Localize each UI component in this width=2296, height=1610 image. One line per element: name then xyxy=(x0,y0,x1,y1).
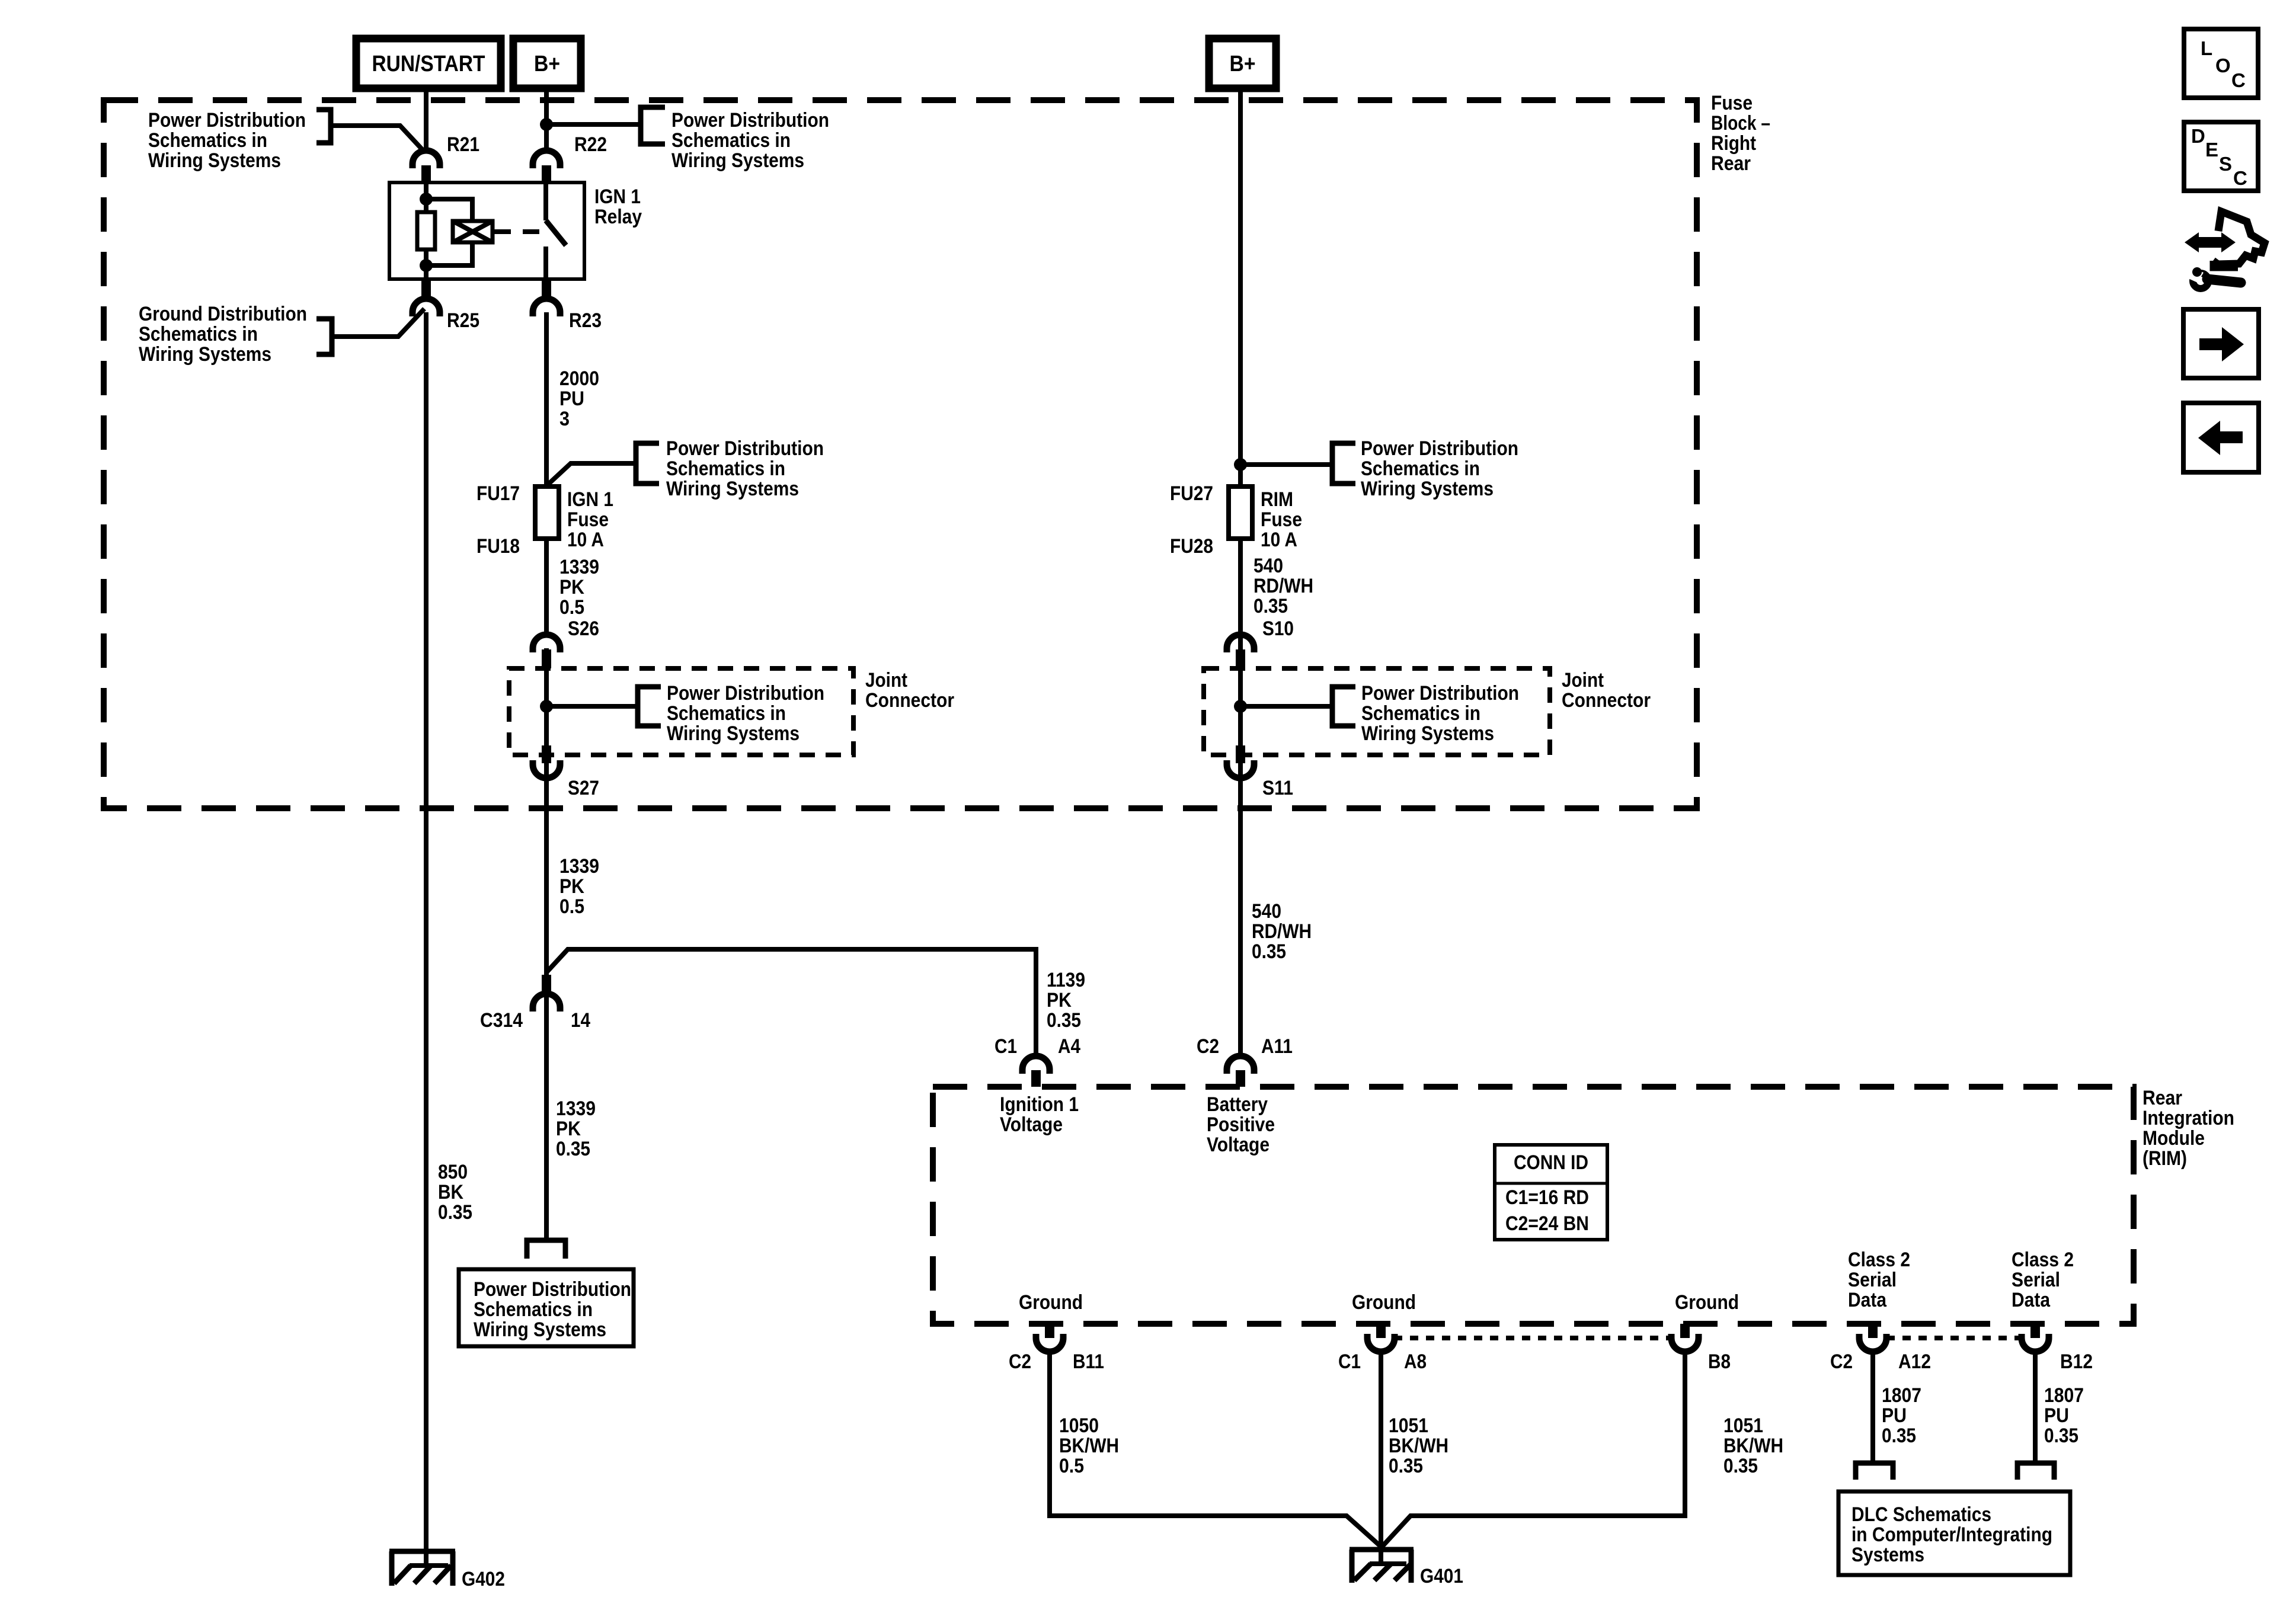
svg-text:A4: A4 xyxy=(1058,1035,1080,1058)
svg-text:Wiring Systems: Wiring Systems xyxy=(139,343,271,366)
svg-text:Power Distribution: Power Distribution xyxy=(667,682,824,705)
svg-text:Positive: Positive xyxy=(1207,1113,1275,1136)
svg-text:A12: A12 xyxy=(1898,1350,1931,1373)
svg-text:BK: BK xyxy=(438,1181,463,1204)
svg-text:Ground Distribution: Ground Distribution xyxy=(139,303,307,325)
svg-text:Power Distribution: Power Distribution xyxy=(148,109,306,132)
svg-text:S11: S11 xyxy=(1262,777,1293,799)
svg-text:BK/WH: BK/WH xyxy=(1059,1435,1119,1457)
svg-text:BK/WH: BK/WH xyxy=(1723,1435,1783,1457)
svg-text:L: L xyxy=(2201,37,2212,59)
svg-text:RIM: RIM xyxy=(1261,488,1293,511)
svg-text:10 A: 10 A xyxy=(1261,529,1297,551)
svg-text:0.5: 0.5 xyxy=(559,596,584,619)
svg-text:G401: G401 xyxy=(1420,1565,1463,1587)
svg-text:Schematics in: Schematics in xyxy=(148,129,267,152)
svg-text:Schematics in: Schematics in xyxy=(139,323,258,345)
svg-text:1339: 1339 xyxy=(556,1097,596,1120)
svg-text:Data: Data xyxy=(1848,1289,1887,1311)
svg-text:Power Distribution: Power Distribution xyxy=(474,1278,631,1301)
svg-text:PU: PU xyxy=(1882,1404,1907,1427)
svg-text:B12: B12 xyxy=(2060,1350,2093,1373)
svg-text:D: D xyxy=(2191,125,2205,147)
svg-text:FU18: FU18 xyxy=(477,535,520,558)
svg-text:C2=24 BN: C2=24 BN xyxy=(1505,1212,1589,1235)
svg-text:1050: 1050 xyxy=(1059,1414,1099,1437)
svg-text:Wiring Systems: Wiring Systems xyxy=(1361,478,1494,500)
svg-text:IGN 1: IGN 1 xyxy=(594,185,641,208)
svg-text:Wiring Systems: Wiring Systems xyxy=(671,149,804,172)
svg-text:0.35: 0.35 xyxy=(1723,1455,1758,1477)
svg-text:Fuse: Fuse xyxy=(567,508,609,531)
svg-text:Schematics in: Schematics in xyxy=(666,457,785,480)
svg-text:A8: A8 xyxy=(1404,1350,1427,1373)
svg-text:B8: B8 xyxy=(1708,1350,1731,1373)
svg-text:B+: B+ xyxy=(1230,52,1256,76)
svg-text:540: 540 xyxy=(1253,555,1283,577)
svg-text:C314: C314 xyxy=(480,1009,523,1032)
svg-text:C2: C2 xyxy=(1830,1350,1853,1373)
svg-text:0.5: 0.5 xyxy=(1059,1455,1084,1477)
svg-text:0.35: 0.35 xyxy=(1047,1009,1081,1032)
svg-text:R22: R22 xyxy=(574,133,607,156)
svg-text:Fuse: Fuse xyxy=(1261,508,1302,531)
svg-text:FU28: FU28 xyxy=(1170,535,1213,558)
svg-text:in Computer/Integrating: in Computer/Integrating xyxy=(1851,1523,2052,1546)
svg-text:A11: A11 xyxy=(1261,1035,1293,1058)
svg-text:0.35: 0.35 xyxy=(556,1138,590,1160)
svg-text:PU: PU xyxy=(559,388,584,410)
svg-text:Right: Right xyxy=(1711,132,1756,155)
svg-text:RD/WH: RD/WH xyxy=(1253,575,1313,597)
svg-text:RD/WH: RD/WH xyxy=(1252,920,1312,943)
svg-text:Wiring Systems: Wiring Systems xyxy=(148,149,281,172)
svg-text:Power Distribution: Power Distribution xyxy=(1361,437,1518,460)
svg-text:Wiring Systems: Wiring Systems xyxy=(667,722,800,745)
svg-text:PK: PK xyxy=(559,875,584,898)
svg-text:Power Distribution: Power Distribution xyxy=(671,109,829,132)
svg-text:IGN 1: IGN 1 xyxy=(567,488,613,511)
svg-text:0.35: 0.35 xyxy=(1389,1455,1423,1477)
svg-text:FU27: FU27 xyxy=(1170,482,1213,505)
svg-text:Schematics in: Schematics in xyxy=(1361,702,1480,725)
svg-text:(RIM): (RIM) xyxy=(2142,1147,2187,1170)
svg-text:3: 3 xyxy=(559,408,570,430)
svg-text:1807: 1807 xyxy=(1882,1384,1921,1407)
svg-text:B+: B+ xyxy=(534,52,560,76)
svg-text:Class 2: Class 2 xyxy=(2012,1249,2074,1271)
svg-text:PK: PK xyxy=(1047,989,1072,1012)
svg-text:1807: 1807 xyxy=(2044,1384,2084,1407)
svg-text:Wiring Systems: Wiring Systems xyxy=(666,478,799,500)
svg-text:S: S xyxy=(2219,153,2232,175)
svg-text:1339: 1339 xyxy=(559,556,599,578)
svg-text:Schematics in: Schematics in xyxy=(474,1298,593,1321)
svg-text:Class 2: Class 2 xyxy=(1848,1249,1910,1271)
svg-text:Data: Data xyxy=(2012,1289,2051,1311)
svg-text:E: E xyxy=(2205,139,2218,161)
svg-text:Wiring Systems: Wiring Systems xyxy=(1361,722,1494,745)
svg-text:O: O xyxy=(2215,55,2231,76)
svg-text:0.35: 0.35 xyxy=(1882,1425,1916,1447)
svg-text:R25: R25 xyxy=(447,309,479,332)
svg-text:2000: 2000 xyxy=(559,367,599,390)
svg-text:Schematics in: Schematics in xyxy=(671,129,791,152)
svg-text:RUN/START: RUN/START xyxy=(372,52,485,76)
svg-text:S27: S27 xyxy=(568,777,599,799)
svg-text:0.5: 0.5 xyxy=(559,895,584,918)
svg-text:Battery: Battery xyxy=(1207,1093,1268,1116)
svg-text:Serial: Serial xyxy=(1848,1269,1897,1291)
svg-text:Integration: Integration xyxy=(2142,1107,2234,1129)
svg-text:1339: 1339 xyxy=(559,855,599,878)
svg-text:Rear: Rear xyxy=(2142,1087,2182,1109)
svg-text:Rear: Rear xyxy=(1711,152,1751,175)
svg-text:R21: R21 xyxy=(447,133,479,156)
svg-text:1051: 1051 xyxy=(1723,1414,1763,1437)
svg-text:Block –: Block – xyxy=(1711,112,1770,135)
svg-text:Ground: Ground xyxy=(1675,1291,1739,1314)
svg-text:Voltage: Voltage xyxy=(1000,1113,1063,1136)
svg-text:Connector: Connector xyxy=(1562,689,1651,712)
svg-text:PU: PU xyxy=(2044,1404,2069,1427)
svg-text:C2: C2 xyxy=(1009,1350,1031,1373)
svg-text:Power Distribution: Power Distribution xyxy=(1361,682,1519,705)
svg-text:540: 540 xyxy=(1252,900,1281,923)
svg-text:Wiring Systems: Wiring Systems xyxy=(474,1318,606,1341)
svg-text:BK/WH: BK/WH xyxy=(1389,1435,1448,1457)
svg-text:Ignition 1: Ignition 1 xyxy=(1000,1093,1079,1116)
svg-text:Module: Module xyxy=(2142,1127,2205,1150)
svg-text:850: 850 xyxy=(438,1161,468,1183)
svg-text:C: C xyxy=(2233,167,2247,189)
svg-text:S10: S10 xyxy=(1262,617,1294,640)
svg-text:PK: PK xyxy=(556,1118,581,1140)
svg-text:14: 14 xyxy=(571,1009,590,1032)
svg-text:C1=16 RD: C1=16 RD xyxy=(1505,1186,1589,1209)
svg-text:1051: 1051 xyxy=(1389,1414,1428,1437)
svg-text:1139: 1139 xyxy=(1047,969,1085,991)
svg-text:Ground: Ground xyxy=(1019,1291,1083,1314)
svg-text:DLC Schematics: DLC Schematics xyxy=(1851,1503,1991,1526)
svg-text:Power Distribution: Power Distribution xyxy=(666,437,824,460)
svg-text:G402: G402 xyxy=(462,1568,505,1590)
svg-text:Serial: Serial xyxy=(2012,1269,2060,1291)
svg-text:B11: B11 xyxy=(1073,1350,1104,1373)
svg-text:Schematics in: Schematics in xyxy=(667,702,786,725)
svg-text:PK: PK xyxy=(559,576,584,598)
svg-text:Joint: Joint xyxy=(1562,669,1604,692)
svg-text:Systems: Systems xyxy=(1851,1544,1924,1566)
svg-text:S26: S26 xyxy=(568,617,599,640)
svg-text:C1: C1 xyxy=(994,1035,1017,1058)
svg-text:0.35: 0.35 xyxy=(1252,940,1286,963)
svg-text:Relay: Relay xyxy=(594,206,642,228)
svg-text:R23: R23 xyxy=(569,309,602,332)
svg-text:CONN ID: CONN ID xyxy=(1514,1151,1588,1174)
svg-text:C2: C2 xyxy=(1197,1035,1219,1058)
svg-text:Fuse: Fuse xyxy=(1711,92,1753,114)
svg-text:0.35: 0.35 xyxy=(1253,595,1288,617)
svg-text:0.35: 0.35 xyxy=(2044,1425,2078,1447)
svg-text:10 A: 10 A xyxy=(567,529,604,551)
svg-text:Schematics in: Schematics in xyxy=(1361,457,1480,480)
svg-text:C: C xyxy=(2231,69,2246,91)
svg-text:FU17: FU17 xyxy=(477,482,520,505)
svg-text:C1: C1 xyxy=(1338,1350,1361,1373)
svg-text:Ground: Ground xyxy=(1352,1291,1416,1314)
svg-text:Connector: Connector xyxy=(865,689,954,712)
svg-text:Joint: Joint xyxy=(865,669,907,692)
svg-text:Voltage: Voltage xyxy=(1207,1134,1269,1156)
svg-text:0.35: 0.35 xyxy=(438,1201,472,1224)
